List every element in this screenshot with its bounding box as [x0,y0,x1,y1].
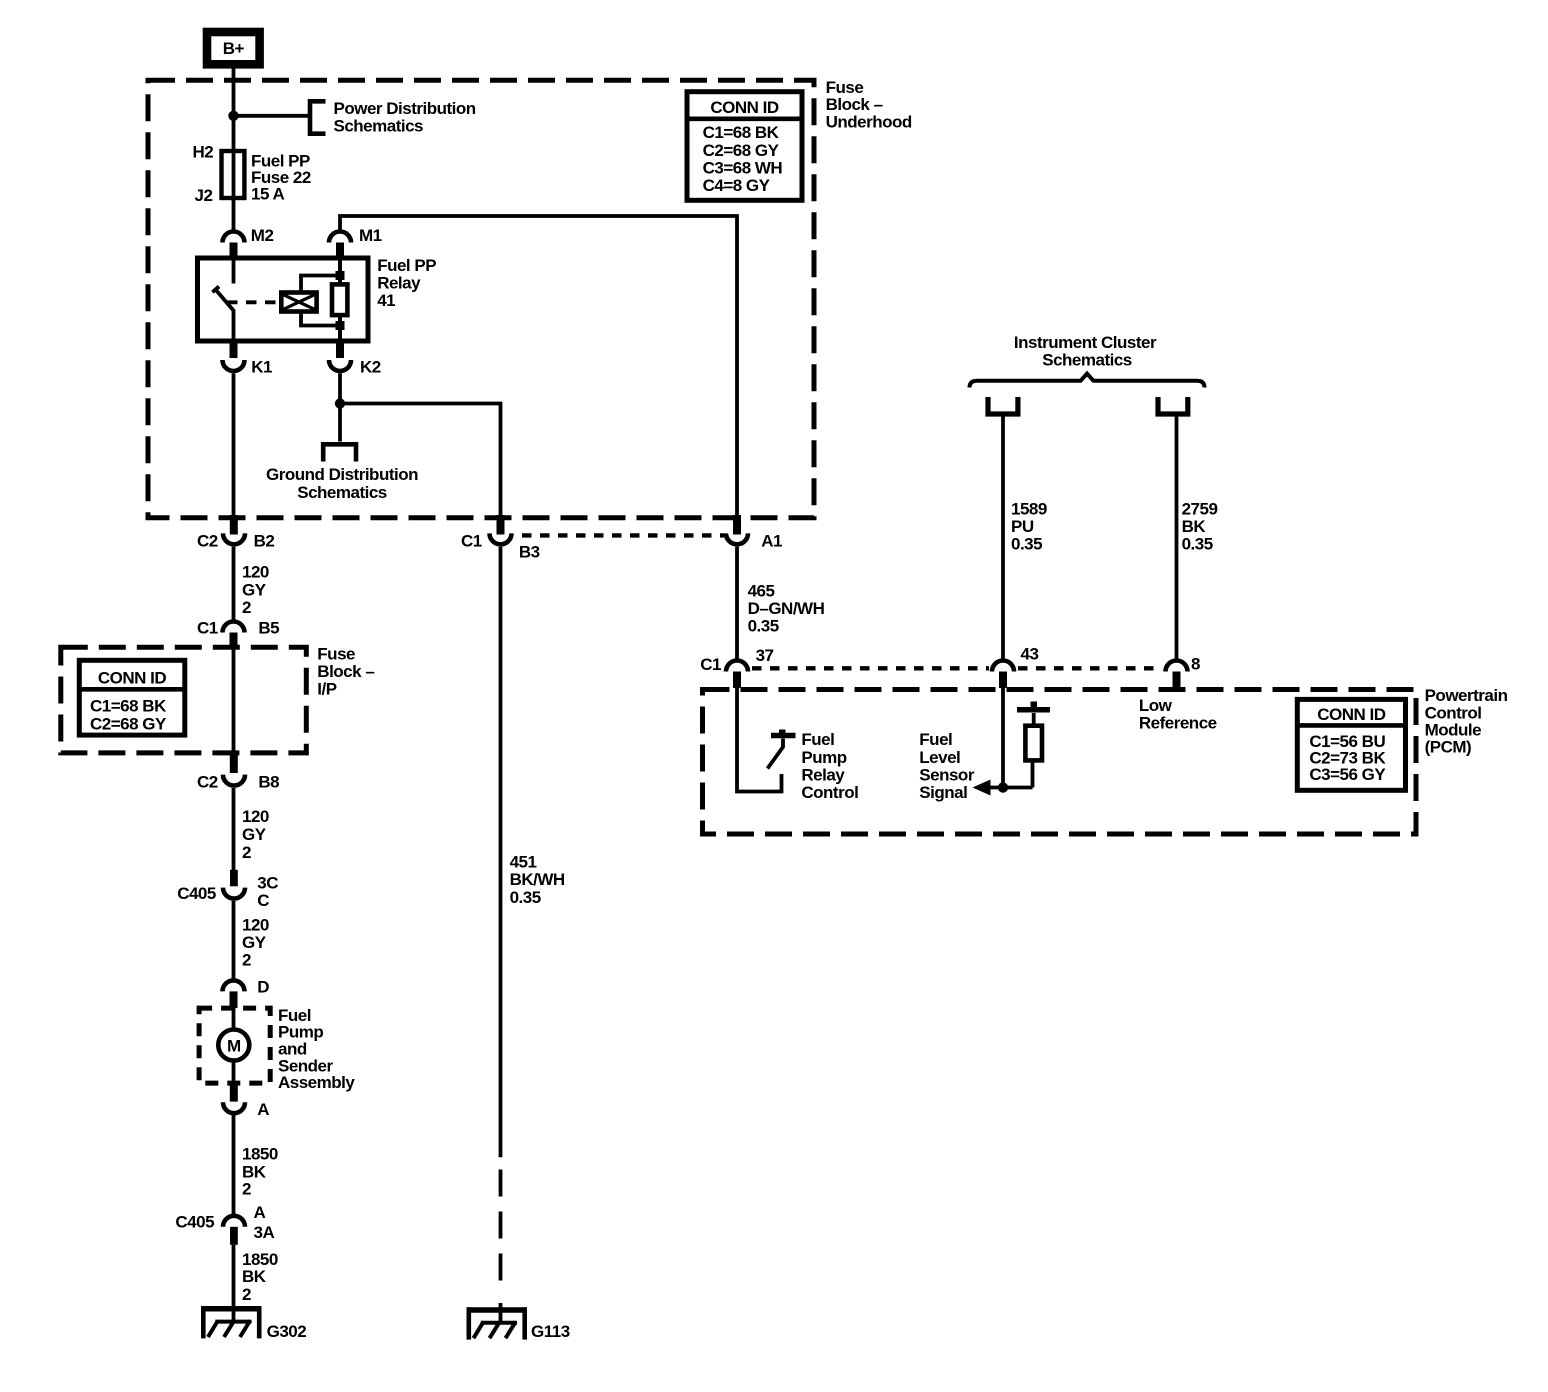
label Low Reference [1139,696,1217,733]
svg-text:K2: K2 [360,358,381,377]
supply T-bar tick [1031,702,1038,708]
label Ground Distribution Schematics [266,465,418,502]
relay internal wire M1 to K2 [338,260,342,339]
wire A to C405 circuit 1850 BK [232,1115,236,1215]
wire PCM 43 internal to sensor node [1001,688,1005,788]
label Fuel Pump and Sender Assembly [278,1006,355,1092]
pull-up resistor fuel level [1025,726,1042,761]
wire A1 to PCM 37 circuit 465 D-GN/WH [735,547,739,659]
svg-text:Pump: Pump [801,748,846,767]
svg-text:Level: Level [919,748,960,767]
relay internal node upper [336,271,345,280]
wire K2 branch to B3 [340,404,501,518]
svg-text:M: M [227,1036,241,1055]
svg-text:Assembly: Assembly [278,1073,355,1092]
svg-text:G113: G113 [531,1322,570,1341]
dotted accessory line B3 to A1 [522,533,724,537]
wire D into pump motor [232,1008,236,1028]
relay internal node lower [336,321,345,330]
relay actuator dashed link [227,300,281,304]
svg-text:15 A: 15 A [251,185,285,204]
svg-text:Schematics: Schematics [297,483,387,502]
connector C1-B3 underhood fuse block [490,515,512,544]
fuse F22 Fuel PP 15 A [222,151,245,198]
wire B2 to B5 circuit 120 GY [232,547,236,621]
dashed wire segment to G113 [499,1170,503,1324]
connector terminal A fuel pump [223,1083,245,1113]
svg-text:0.35: 0.35 [748,617,779,636]
connector C1-A1 underhood fuse block [726,515,748,544]
svg-text:Instrument Cluster: Instrument Cluster [1014,333,1157,352]
connector pin 8 PCM [1166,661,1188,689]
connector C2-B2 underhood fuse block [223,515,245,544]
wire C405 to G302 circuit 1850 BK [232,1245,236,1322]
wire label 2759 BK 0.35 [1182,500,1218,554]
ground G302 [202,1306,261,1338]
svg-text:1850: 1850 [242,1145,278,1164]
svg-text:Fuel: Fuel [801,730,834,749]
svg-text:0.35: 0.35 [1182,535,1213,554]
connector C405 in-line lower [223,1216,245,1245]
label Fuel PP Fuse 22 15 A [251,152,311,204]
svg-text:B+: B+ [223,39,245,58]
svg-text:Low: Low [1139,696,1173,715]
svg-text:Fuse: Fuse [317,645,355,664]
wire label 1850 BK 2 [242,1145,278,1199]
wire label 451 BK/WH 0.35 [510,853,565,907]
svg-text:Ground Distribution: Ground Distribution [266,465,418,484]
svg-text:Fuse: Fuse [826,78,864,97]
wire C405 to D circuit 120 GY [232,901,236,980]
Fuse Block IP dashed box [61,647,306,753]
svg-text:43: 43 [1021,645,1039,664]
relay switch blade tip tick [212,287,219,293]
svg-text:CONN ID: CONN ID [710,98,779,117]
svg-text:Power Distribution: Power Distribution [334,99,476,118]
wire cluster to PCM 8 circuit 2759 BK [1175,416,1179,660]
svg-text:H2: H2 [193,143,214,162]
relay fixed contact from M2 [232,260,236,284]
wire label 465 D-GN/WH 0.35 [748,581,825,635]
svg-text:D: D [257,977,269,996]
label Powertrain Control Module PCM [1425,686,1508,757]
label Instrument Cluster Schematics [1014,333,1157,370]
svg-text:Block –: Block – [826,95,883,114]
relay K41 Fuel PP Relay box [198,258,369,341]
wire label 120 GY 2 [242,807,269,862]
fuel pump relay control driver T-bar [771,733,796,739]
junction node power distribution tap [228,111,238,121]
svg-text:C: C [257,891,269,910]
connector terminal K2 [329,341,351,371]
driver switch blade [768,739,784,769]
svg-text:M1: M1 [359,226,382,245]
svg-text:Signal: Signal [919,783,967,802]
svg-text:BK/WH: BK/WH [510,870,565,889]
svg-text:37: 37 [756,646,774,665]
connector C1 pin 37 PCM [726,661,748,689]
driver T-bar tick [779,730,786,736]
Fuel Pump and Sender Assembly dashed box [199,1008,270,1083]
svg-text:C2: C2 [197,773,218,792]
label Fuse Block IP [317,645,374,699]
wire M1 up and across to A1 [340,216,737,517]
svg-text:0.35: 0.35 [510,888,541,907]
wire B8 to C405 circuit 120 GY [232,788,236,886]
label Fuse Block Underhood [826,78,912,131]
svg-text:CONN ID: CONN ID [98,668,167,687]
svg-text:Schematics: Schematics [334,116,424,135]
off-page reference bracket Power Distribution [310,101,326,133]
svg-text:Control: Control [801,783,858,802]
SEC-CLUSTER [970,333,1218,659]
svg-text:41: 41 [377,291,395,310]
dotted connector face line PCM left [752,666,989,670]
svg-text:2: 2 [242,1285,251,1304]
svg-text:B8: B8 [258,773,279,792]
instrument cluster fuel gauge terminal right [1158,397,1188,414]
wire B+ down to fuse F22 and M2 [232,69,236,231]
svg-text:3C: 3C [257,873,278,892]
svg-text:GY: GY [242,825,267,844]
Fuse Block Underhood dashed box [148,80,814,518]
wire label 1850 BK 2 [242,1250,278,1304]
svg-text:J2: J2 [195,186,213,205]
wire cluster to PCM 43 circuit 1589 PU [1001,416,1005,660]
svg-text:GY: GY [242,933,267,952]
svg-text:Powertrain: Powertrain [1425,686,1508,705]
svg-text:C3=56 GY: C3=56 GY [1309,765,1386,784]
svg-text:A1: A1 [761,531,782,550]
signal arrowhead [973,780,991,796]
connector pin 43 PCM [992,661,1014,689]
svg-text:C1=68 BK: C1=68 BK [703,123,780,142]
svg-text:B3: B3 [519,542,540,561]
wire B5 through IP fuse block [232,648,236,753]
svg-text:(PCM): (PCM) [1425,738,1472,757]
svg-text:GY: GY [242,581,267,600]
label Fuel PP Relay 41 [377,256,436,310]
svg-text:K1: K1 [251,358,272,377]
wire branch to power distribution reference [234,114,311,118]
svg-text:Relay: Relay [377,274,421,293]
svg-text:Reference: Reference [1139,714,1217,733]
connector terminal K1 [223,341,245,371]
svg-text:PU: PU [1011,517,1034,536]
SEC-LEFTCOL [61,515,375,1341]
svg-text:2: 2 [242,1179,251,1198]
connector terminal D fuel pump [223,980,245,1008]
svg-text:120: 120 [242,563,269,582]
instrument cluster brace [970,374,1205,388]
svg-text:0.35: 0.35 [1011,535,1042,554]
wire label 1589 PU 0.35 [1011,500,1047,554]
CONN ID table Fuse Block Underhood [687,92,802,201]
internal supply T-bar [1017,707,1050,713]
relay switch blade [216,290,234,339]
label Fuel Pump Relay Control [801,730,858,802]
svg-text:M2: M2 [251,226,274,245]
svg-text:BK: BK [1182,517,1207,536]
svg-text:451: 451 [510,853,537,872]
svg-text:120: 120 [242,916,269,935]
junction node K2 branch [335,398,345,408]
battery positive terminal B+ [207,32,260,64]
svg-text:C2=68 GY: C2=68 GY [90,715,167,734]
connector terminal M2 [223,232,245,259]
svg-text:Relay: Relay [801,765,845,784]
Powertrain Control Module dashed box [703,690,1417,835]
wire resistor leg [1033,713,1034,788]
svg-text:C1=68 BK: C1=68 BK [90,697,167,716]
svg-text:120: 120 [242,807,269,826]
wire sensor node horizontal [988,786,1033,790]
SEC-TOPLEFT [148,32,912,518]
svg-text:C1: C1 [700,655,721,674]
svg-text:2759: 2759 [1182,500,1218,519]
svg-text:Schematics: Schematics [1042,351,1132,370]
wire PCM 37 internal to driver [737,688,782,792]
svg-text:Fuel: Fuel [919,730,952,749]
wire B3 down circuit 451 BK/WH [499,547,503,1157]
svg-text:2: 2 [242,843,251,862]
svg-text:C4=8 GY: C4=8 GY [703,176,771,195]
wire label 120 GY 2 [242,916,269,970]
ground distribution off-page bracket [323,444,356,461]
junction node fuel level signal [998,782,1008,792]
ground G113 [468,1307,527,1339]
wire K1 down to B2 [232,373,236,517]
svg-text:C2=68 GY: C2=68 GY [703,141,780,160]
svg-text:CONN ID: CONN ID [1317,705,1386,724]
relay suppression resistor [332,284,347,315]
svg-text:B5: B5 [258,619,279,638]
svg-text:Block –: Block – [317,662,374,681]
svg-text:C1: C1 [461,531,482,550]
connector C1-B5 IP fuse block [223,622,245,649]
connector C405 in-line upper [223,870,245,899]
label Fuel Level Sensor Signal [919,730,975,802]
svg-text:I/P: I/P [317,680,336,699]
relay coil parallel loop wires [301,276,340,326]
fuel pump motor M [218,1030,249,1061]
svg-text:G302: G302 [267,1322,307,1341]
wire pump motor to A [232,1062,236,1083]
svg-text:A: A [254,1203,266,1222]
CONN ID table Fuse Block IP [79,660,185,735]
instrument cluster fuel gauge terminal left [988,397,1018,414]
SEC-MIDCOL [461,515,825,1341]
svg-text:1589: 1589 [1011,500,1047,519]
svg-text:A: A [257,1100,269,1119]
svg-text:2: 2 [242,951,251,970]
svg-text:D–GN/WH: D–GN/WH [748,599,825,618]
svg-text:3A: 3A [254,1223,275,1242]
svg-text:C1: C1 [197,619,218,638]
SEC-PCM [700,645,1507,835]
svg-text:C405: C405 [177,884,216,903]
svg-text:BK: BK [242,1267,267,1286]
svg-text:8: 8 [1191,655,1200,674]
svg-text:C405: C405 [175,1213,214,1232]
connector terminal M1 [329,232,351,259]
svg-text:C2: C2 [197,531,218,550]
wire K2 down to ground reference [338,373,342,441]
SEC-RELAY [198,256,501,517]
svg-text:465: 465 [748,581,775,600]
svg-text:B2: B2 [254,531,275,550]
svg-text:Fuel PP: Fuel PP [377,256,436,275]
svg-text:C3=68 WH: C3=68 WH [703,159,783,178]
relay coil box with X [281,293,316,312]
svg-text:Sensor: Sensor [919,765,975,784]
CONN ID table PCM [1297,699,1405,790]
svg-text:2: 2 [242,598,251,617]
label Power Distribution Schematics [334,99,476,135]
svg-text:Underhood: Underhood [826,112,912,131]
wire label 120 GY 2 [242,563,269,618]
connector C2-B8 IP fuse block [223,753,245,786]
dotted connector face line PCM right [1018,666,1162,670]
